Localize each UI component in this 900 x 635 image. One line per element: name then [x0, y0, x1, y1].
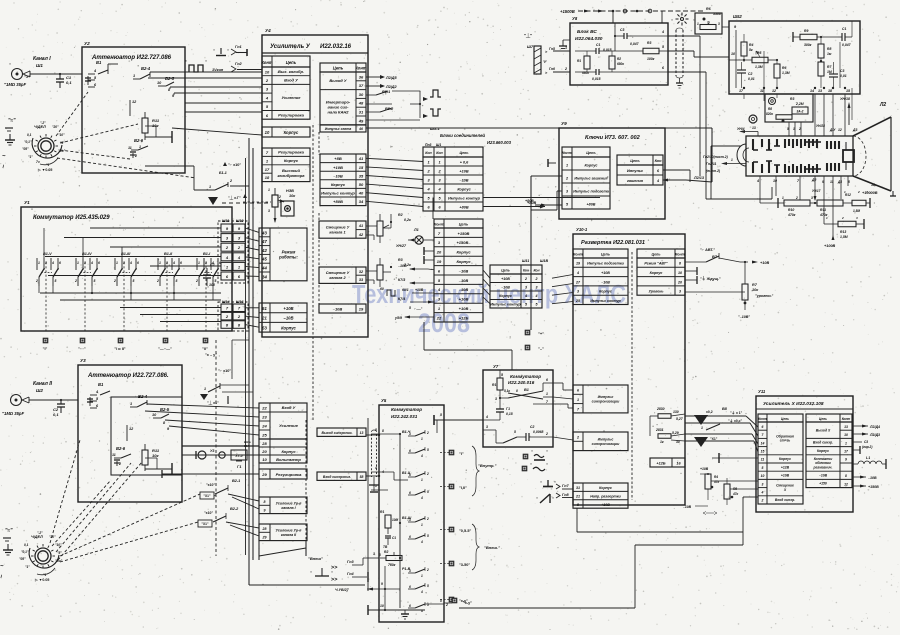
- svg-text:И22.240.016: И22.240.016: [508, 380, 535, 385]
- switch B1 (U7): [500, 378, 553, 404]
- svg-text:34: 34: [359, 199, 364, 204]
- resistor R1 10М (U5): [380, 510, 399, 549]
- svg-text:(пист.2): (пист.2): [706, 169, 721, 173]
- svg-text:УН/28: УН/28: [816, 124, 825, 128]
- svg-text:+150В: +150В: [868, 485, 879, 489]
- svg-text:Д/У: Д/У: [829, 128, 836, 132]
- switch B1-4 (U5): [402, 413, 483, 458]
- svg-text:У4: У4: [265, 28, 271, 33]
- svg-text:калибратора: калибратора: [277, 173, 305, 178]
- svg-text:Корпус: Корпус: [284, 130, 299, 135]
- block U7 Коммутатор И22.240.016: [483, 364, 553, 447]
- resistor R9 300к (Ш52): [793, 29, 838, 47]
- svg-text:Усиление: Усиление: [279, 423, 299, 428]
- svg-text:5: 5: [409, 306, 411, 310]
- wire U5 bottom ground: [401, 610, 409, 619]
- wire U1 to mode pins: [245, 228, 259, 276]
- svg-text:Л1: Л1: [413, 228, 419, 232]
- svg-text:4: 4: [420, 590, 423, 594]
- svg-text:19: 19: [576, 262, 580, 266]
- wire vertical bus pair: [216, 138, 253, 585]
- switch B1-1 х10: [145, 162, 268, 205]
- potentiometer R5 1,3М (Ш52): [729, 51, 777, 69]
- svg-text:+8В: +8В: [334, 156, 342, 161]
- svg-text:Вольтметр: Вольтметр: [276, 457, 301, 462]
- node plus minus indicators: [525, 330, 544, 351]
- svg-text:УН/18: УН/18: [840, 97, 850, 101]
- svg-text:2,2к: 2,2к: [403, 263, 411, 267]
- connector Гн2 калибратор 1V: [185, 59, 262, 72]
- vacuum tube Л2 funnel: [853, 102, 896, 196]
- svg-text:Импульс гашения: Импульс гашения: [574, 176, 608, 180]
- svg-text:+80В: +80В: [525, 199, 534, 203]
- svg-text:У2: У2: [84, 41, 90, 46]
- svg-text:Усиление Ур-я: Усиление Ур-я: [276, 528, 303, 532]
- svg-text:Корпус: Корпус: [456, 250, 471, 255]
- svg-text:Смещение У: Смещение У: [326, 271, 350, 275]
- svg-text:2: 2: [576, 436, 579, 440]
- wire dashed divider U10: [631, 252, 633, 500]
- svg-text:7ч: 7ч: [36, 160, 40, 164]
- svg-text:6: 6: [546, 378, 548, 382]
- svg-text:29: 29: [261, 472, 267, 477]
- svg-text:44: 44: [261, 266, 267, 271]
- svg-text:У1: У1: [24, 200, 30, 205]
- svg-text:Л2/Д2: Л2/Д2: [385, 85, 398, 89]
- svg-text:2: 2: [761, 499, 764, 503]
- wire CRT anode УН/18: [838, 97, 857, 132]
- svg-text:11: 11: [760, 89, 764, 93]
- svg-text:R3: R3: [398, 258, 403, 262]
- resistor R13 1,5М: [824, 216, 864, 239]
- svg-text:К7/4: К7/4: [398, 297, 405, 301]
- potentiometer R7 10к уровень: [685, 261, 773, 319]
- svg-text:>>: >>: [331, 577, 337, 583]
- svg-text:Гн2: Гн2: [235, 62, 243, 66]
- connector table U10 bottom: [573, 483, 628, 508]
- svg-text:Корпус: Корпус: [599, 290, 612, 294]
- svg-text:"10": "10": [58, 133, 65, 137]
- block Ш52: [729, 14, 860, 94]
- node watermark: [352, 281, 626, 338]
- svg-text:34: 34: [262, 274, 267, 279]
- svg-text:Блоки соединителей: Блоки соединителей: [440, 133, 485, 138]
- svg-text:"х10": "х10": [206, 483, 215, 487]
- svg-text:R2: R2: [398, 213, 403, 217]
- svg-text:4: 4: [524, 294, 527, 298]
- svg-text:6: 6: [137, 261, 139, 265]
- svg-text:1: 1: [701, 426, 703, 430]
- svg-text:Л2/Д3: Л2/Д3: [869, 433, 880, 437]
- svg-text:В1: В1: [524, 388, 529, 392]
- svg-text:"⏊ х.Г": "⏊ х.Г": [228, 195, 241, 200]
- svg-text:Ш1В: Ш1В: [540, 259, 549, 263]
- resistor R6 530к: [695, 7, 729, 34]
- svg-text:25: 25: [261, 432, 267, 437]
- svg-text:5: 5: [176, 279, 178, 283]
- svg-text:В2-4: В2-4: [138, 394, 148, 399]
- svg-text:1: 1: [116, 261, 118, 265]
- svg-text:20: 20: [261, 449, 267, 454]
- svg-text:R4: R4: [749, 43, 753, 47]
- svg-text:47к: 47к: [713, 480, 720, 484]
- svg-text:Д2: Д2: [811, 178, 816, 182]
- svg-text:18: 18: [265, 175, 270, 180]
- wire dashed rotary to U2: [56, 92, 196, 178]
- svg-text:11: 11: [128, 146, 132, 150]
- svg-text:Ч.УВ/27: Ч.УВ/27: [335, 588, 350, 592]
- svg-text:"1": "1": [28, 155, 33, 159]
- svg-text:4: 4: [756, 179, 759, 183]
- svg-text:Корпус: Корпус: [585, 163, 598, 167]
- switch B1 (U2): [85, 60, 118, 87]
- svg-text:10: 10: [761, 474, 765, 478]
- svg-text:1: 1: [38, 261, 40, 265]
- svg-text:Л2: Л2: [879, 102, 886, 108]
- svg-text:Гн2/10(пист.2): Гн2/10(пист.2): [703, 155, 729, 159]
- svg-text:Б1-1: Б1-1: [219, 171, 227, 175]
- svg-text:0,01: 0,01: [748, 77, 755, 81]
- svg-text:20: 20: [677, 280, 682, 284]
- switch В1-V (U1): [35, 228, 61, 331]
- svg-text:В2-5: В2-5: [165, 76, 175, 81]
- capacitor C2 0,1: [53, 400, 65, 417]
- svg-text:4: 4: [576, 271, 579, 275]
- connector Ш11 Ш19 (U1 right): [218, 219, 248, 283]
- svg-text:"⏊": "⏊": [524, 32, 532, 39]
- svg-text:УН/27: УН/27: [396, 244, 407, 248]
- svg-text:48: 48: [358, 101, 364, 106]
- wire output Л2/Д5 Л2/Д2: [366, 75, 398, 89]
- svg-text:0: 0: [516, 389, 518, 393]
- svg-text:13: 13: [360, 431, 364, 435]
- svg-text:6: 6: [762, 425, 764, 429]
- svg-text:"I": "I": [459, 452, 464, 456]
- svg-text:"⌐ х10": "⌐ х10": [218, 369, 231, 373]
- svg-text:5: 5: [133, 279, 135, 283]
- svg-text:9: 9: [845, 458, 847, 462]
- svg-text:"≈": "≈": [5, 528, 13, 534]
- svg-text:0,01: 0,01: [840, 74, 847, 78]
- resistor R1 680к (U8): [577, 51, 590, 75]
- svg-text:В1-I: В1-I: [203, 252, 211, 256]
- svg-text:22: 22: [261, 405, 267, 410]
- svg-text:R13: R13: [840, 230, 846, 234]
- svg-text:300к: 300к: [804, 43, 812, 47]
- svg-text:0,047: 0,047: [630, 42, 640, 46]
- svg-text:С1: С1: [210, 263, 215, 267]
- svg-text:0,1: 0,1: [66, 80, 72, 85]
- svg-text:Корпус: Корпус: [281, 449, 296, 454]
- svg-text:47: 47: [261, 239, 267, 244]
- svg-text:2831: 2831: [655, 428, 664, 432]
- svg-text:5: 5: [514, 430, 516, 434]
- svg-text:Гн5: Гн5: [549, 47, 555, 51]
- svg-text:3: 3: [577, 290, 579, 294]
- svg-text:0,1: 0,1: [27, 133, 32, 137]
- connector table U10 right: [637, 249, 686, 295]
- svg-text:5: 5: [55, 279, 57, 283]
- svg-text:3: 3: [268, 209, 270, 213]
- svg-text:Импульс контур: Импульс контур: [590, 299, 621, 303]
- svg-text:–10В: –10В: [333, 306, 343, 311]
- potentiometer R3 2,2к смещение 2: [366, 258, 411, 287]
- svg-text:3А-2: 3А-2: [797, 110, 804, 114]
- connector Ш7: [524, 32, 570, 75]
- svg-text:Импульс подсветки: Импульс подсветки: [587, 262, 625, 266]
- svg-text:1: 1: [268, 188, 270, 192]
- svg-text:8: 8: [845, 474, 847, 478]
- svg-text:130: 130: [673, 410, 679, 414]
- svg-text:"х – у": "х – у": [205, 353, 217, 357]
- svg-text:"0,1": "0,1": [24, 140, 32, 144]
- svg-text:21: 21: [261, 316, 267, 321]
- svg-text:5,1к: 5,1к: [504, 389, 510, 393]
- node range indicators (U5): [440, 450, 471, 603]
- svg-text:–10В: –10В: [683, 505, 692, 509]
- svg-text:3: 3: [536, 286, 538, 290]
- svg-text:18: 18: [828, 89, 832, 93]
- svg-text:Гн6: Гн6: [549, 67, 555, 71]
- switch B2-4 (U2): [133, 66, 262, 79]
- svg-text:У9: У9: [561, 121, 567, 126]
- svg-text:"–10В": "–10В": [738, 315, 750, 319]
- block U8 Блок ВС И22.064.030: [570, 16, 668, 85]
- svg-text:28: 28: [261, 441, 267, 446]
- svg-text:40: 40: [358, 191, 364, 196]
- svg-text:–10В: –10В: [459, 178, 468, 182]
- svg-text:46: 46: [358, 127, 363, 131]
- switch B5-1 B5-2 inversion: [366, 90, 441, 120]
- svg-text:53: 53: [262, 325, 267, 330]
- svg-text:1: 1: [421, 523, 423, 527]
- connector table U4 Смещение canal 2: [319, 267, 366, 283]
- svg-text:"≈": "≈": [8, 118, 16, 124]
- svg-text:В1: В1: [96, 60, 102, 65]
- svg-text:Кон: Кон: [533, 268, 539, 272]
- svg-text:Х7-5: Х7-5: [234, 454, 242, 458]
- svg-text:680к: 680к: [617, 62, 624, 66]
- connector table U9 left: [562, 147, 610, 209]
- svg-text:Г1: Г1: [506, 407, 510, 411]
- svg-text:Гн7: Гн7: [562, 484, 570, 488]
- svg-text:Кон: Кон: [436, 151, 443, 155]
- svg-text:У5: У5: [381, 398, 387, 403]
- svg-text:~: ~: [2, 154, 6, 160]
- svg-text:Развертка И22.081.031: Развертка И22.081.031: [581, 240, 645, 246]
- wire U4 to Ш5-1: [366, 158, 423, 206]
- svg-text:Ключи И73. 607. 002: Ключи И73. 607. 002: [585, 135, 641, 141]
- connector table U10 sync 2: [573, 432, 628, 451]
- svg-text:+80В: +80В: [333, 199, 343, 204]
- svg-text:R2: R2: [384, 550, 388, 554]
- svg-text:13: 13: [752, 126, 756, 130]
- svg-text:51: 51: [262, 306, 267, 311]
- svg-text:15: 15: [359, 165, 364, 170]
- svg-text:Выход Х: Выход Х: [816, 428, 831, 432]
- wire U3 корпус row: [182, 440, 259, 459]
- svg-text:R1: R1: [577, 59, 581, 63]
- svg-text:5к: 5к: [749, 48, 753, 52]
- wire Ш5-1 outputs right: [483, 198, 600, 209]
- switch B7 режим АВТ: [685, 248, 769, 284]
- svg-text:Корпус: Корпус: [331, 182, 346, 187]
- rotary switch V/ДЕЛ channel I: [22, 121, 66, 172]
- svg-text:1: 1: [845, 441, 847, 445]
- svg-text:Цепь: Цепь: [630, 159, 640, 163]
- svg-text:работы:: работы:: [278, 254, 298, 259]
- svg-text:": ": [552, 496, 554, 501]
- svg-text:2: 2: [564, 67, 567, 71]
- svg-text:0,15: 0,15: [506, 412, 513, 416]
- svg-text:20: 20: [436, 250, 442, 255]
- svg-text:6: 6: [59, 261, 61, 265]
- connector XS1 Канал I: [4, 56, 51, 87]
- svg-text:С3: С3: [620, 28, 624, 32]
- svg-text:Импульс света: Импульс света: [325, 127, 352, 131]
- wire CRT left pins: [703, 126, 758, 173]
- svg-text:1: 1: [566, 163, 568, 167]
- svg-text:3: 3: [525, 286, 527, 290]
- svg-text:1: 1: [697, 22, 699, 26]
- svg-text:Ш7: Ш7: [527, 44, 534, 49]
- connector table U4 right: [320, 63, 367, 206]
- svg-text:2: 2: [524, 277, 527, 281]
- switch B1-2 х10: [200, 369, 253, 405]
- svg-text:3: 3: [495, 397, 497, 401]
- wire регулировка row 29: [162, 470, 259, 478]
- svg-text:И23.660.003: И23.660.003: [487, 140, 512, 145]
- svg-text:Конт: Конт: [842, 417, 851, 421]
- svg-text:"⏚ х0,с": "⏚ х0,с": [728, 418, 743, 423]
- svg-text:+10В: +10В: [333, 165, 343, 170]
- capacitor C3 0,01 (Ш52): [829, 62, 847, 88]
- svg-text:"Х1": "Х1": [710, 437, 718, 441]
- potentiometer cluster R3 2,2М яркость: [749, 94, 813, 123]
- svg-text:Коммутатор: Коммутатор: [391, 407, 422, 412]
- svg-text:6: 6: [409, 585, 411, 589]
- svg-text:5: 5: [427, 603, 429, 607]
- svg-text:Цепь: Цепь: [586, 151, 596, 155]
- svg-text:Усилитель Х И22.032.108: Усилитель Х И22.032.108: [763, 401, 824, 407]
- svg-text:5: 5: [427, 490, 429, 494]
- svg-text:3: 3: [409, 569, 411, 573]
- svg-text:3: 3: [379, 553, 381, 557]
- svg-text:Вход У: Вход У: [284, 77, 298, 82]
- svg-text:Импульс: Импульс: [598, 437, 614, 441]
- svg-text:+10В: +10В: [760, 261, 769, 265]
- svg-text:30: 30: [359, 92, 364, 97]
- svg-text:"0,1": "0,1": [21, 550, 29, 554]
- capacitor C1 0,015 (U8): [575, 43, 615, 54]
- svg-text:С1: С1: [392, 536, 396, 540]
- svg-text:43: 43: [261, 230, 267, 235]
- svg-text:1: 1: [731, 158, 733, 162]
- switch B1-1 (U5): [402, 567, 448, 613]
- svg-text:24: 24: [261, 423, 267, 428]
- svg-text:Канал I: Канал I: [33, 56, 51, 62]
- wire Ш11 to U10: [552, 275, 573, 304]
- connector table U4 left pins: [261, 56, 310, 182]
- svg-text:10: 10: [380, 604, 384, 608]
- wire U2 outputs to U4: [185, 103, 262, 112]
- connector Ш14 Ш16 (U1 right lower): [218, 300, 248, 331]
- connector table U10 left: [573, 249, 628, 305]
- resistor R11 470к: [810, 200, 848, 217]
- svg-text:1,5М: 1,5М: [853, 209, 860, 213]
- svg-text:R10: R10: [788, 208, 794, 212]
- svg-text:1: 1: [793, 127, 795, 131]
- svg-text:+150: +150: [819, 482, 827, 486]
- wire U8 pins right: [661, 30, 729, 199]
- svg-text:гашения: гашения: [627, 179, 644, 183]
- svg-text:"⏊ х1": "⏊ х1": [207, 400, 219, 405]
- svg-text:Д3: Д3: [852, 128, 857, 132]
- svg-text:Гн8: Гн8: [562, 493, 570, 497]
- svg-text:R3: R3: [647, 41, 651, 45]
- connector table U4 lower signal pins: [259, 403, 307, 560]
- capacitor C1 0,1: [56, 74, 72, 88]
- svg-text:+10000В: +10000В: [862, 191, 878, 195]
- svg-text:Кон: Кон: [523, 268, 529, 272]
- svg-text:Конт: Конт: [675, 252, 685, 256]
- svg-text:"х-у": "х-у": [463, 601, 472, 605]
- node braces Внутр Внеш: [472, 446, 500, 570]
- svg-text:Корпус: Корпус: [499, 294, 512, 298]
- svg-text:ст=зь: ст=зь: [780, 439, 791, 443]
- svg-text:0,047: 0,047: [842, 43, 852, 47]
- svg-text:3: 3: [486, 425, 488, 429]
- svg-text:11: 11: [761, 458, 765, 462]
- wire shielded cable (U5 input): [366, 418, 384, 591]
- svg-text:1: 1: [133, 74, 135, 78]
- svg-text:1к: 1к: [660, 440, 664, 444]
- svg-text:Цепь: Цепь: [333, 65, 344, 70]
- svg-text:R9: R9: [804, 29, 808, 33]
- svg-text:R1: R1: [380, 510, 384, 514]
- svg-text:47к: 47к: [732, 492, 739, 496]
- svg-text:У11: У11: [758, 389, 766, 394]
- svg-text:"+": "+": [538, 331, 544, 336]
- svg-text:Канал II: Канал II: [33, 381, 53, 387]
- svg-text:+ 0,6: + 0,6: [460, 160, 469, 164]
- svg-text:"х10": "х10": [204, 511, 213, 515]
- svg-text:"⏚ Ждущ.": "⏚ Ждущ.": [700, 276, 721, 281]
- svg-text:R1: R1: [492, 383, 496, 387]
- svg-text:–10В: –10В: [333, 173, 343, 178]
- node +100В: [824, 235, 836, 248]
- svg-text:1: 1: [421, 437, 423, 441]
- svg-text:"I,II": "I,II": [459, 486, 467, 490]
- svg-text:НЗВ: НЗВ: [286, 189, 294, 193]
- svg-text:17: 17: [265, 167, 270, 172]
- svg-text:В2-6: В2-6: [116, 446, 126, 451]
- svg-text:10к: 10к: [752, 288, 759, 292]
- svg-text:1: 1: [782, 196, 784, 200]
- svg-text:3: 3: [409, 518, 411, 522]
- svg-text:100: 100: [209, 283, 215, 287]
- svg-text:канала I: канала I: [281, 506, 296, 510]
- svg-text:Ч/ДЕЛ: Ч/ДЕЛ: [34, 125, 46, 129]
- svg-text:Гн4: Гн4: [347, 572, 355, 576]
- svg-text:"I": "I": [43, 347, 48, 351]
- svg-text:Вход синхр.: Вход синхр.: [813, 441, 833, 445]
- svg-text:3: 3: [373, 552, 375, 556]
- svg-text:–10В: –10В: [868, 476, 877, 480]
- svg-text:синхронизации: синхронизации: [592, 442, 620, 446]
- switch B2-6 (U3): [112, 446, 131, 466]
- svg-text:+10В: +10В: [415, 288, 424, 292]
